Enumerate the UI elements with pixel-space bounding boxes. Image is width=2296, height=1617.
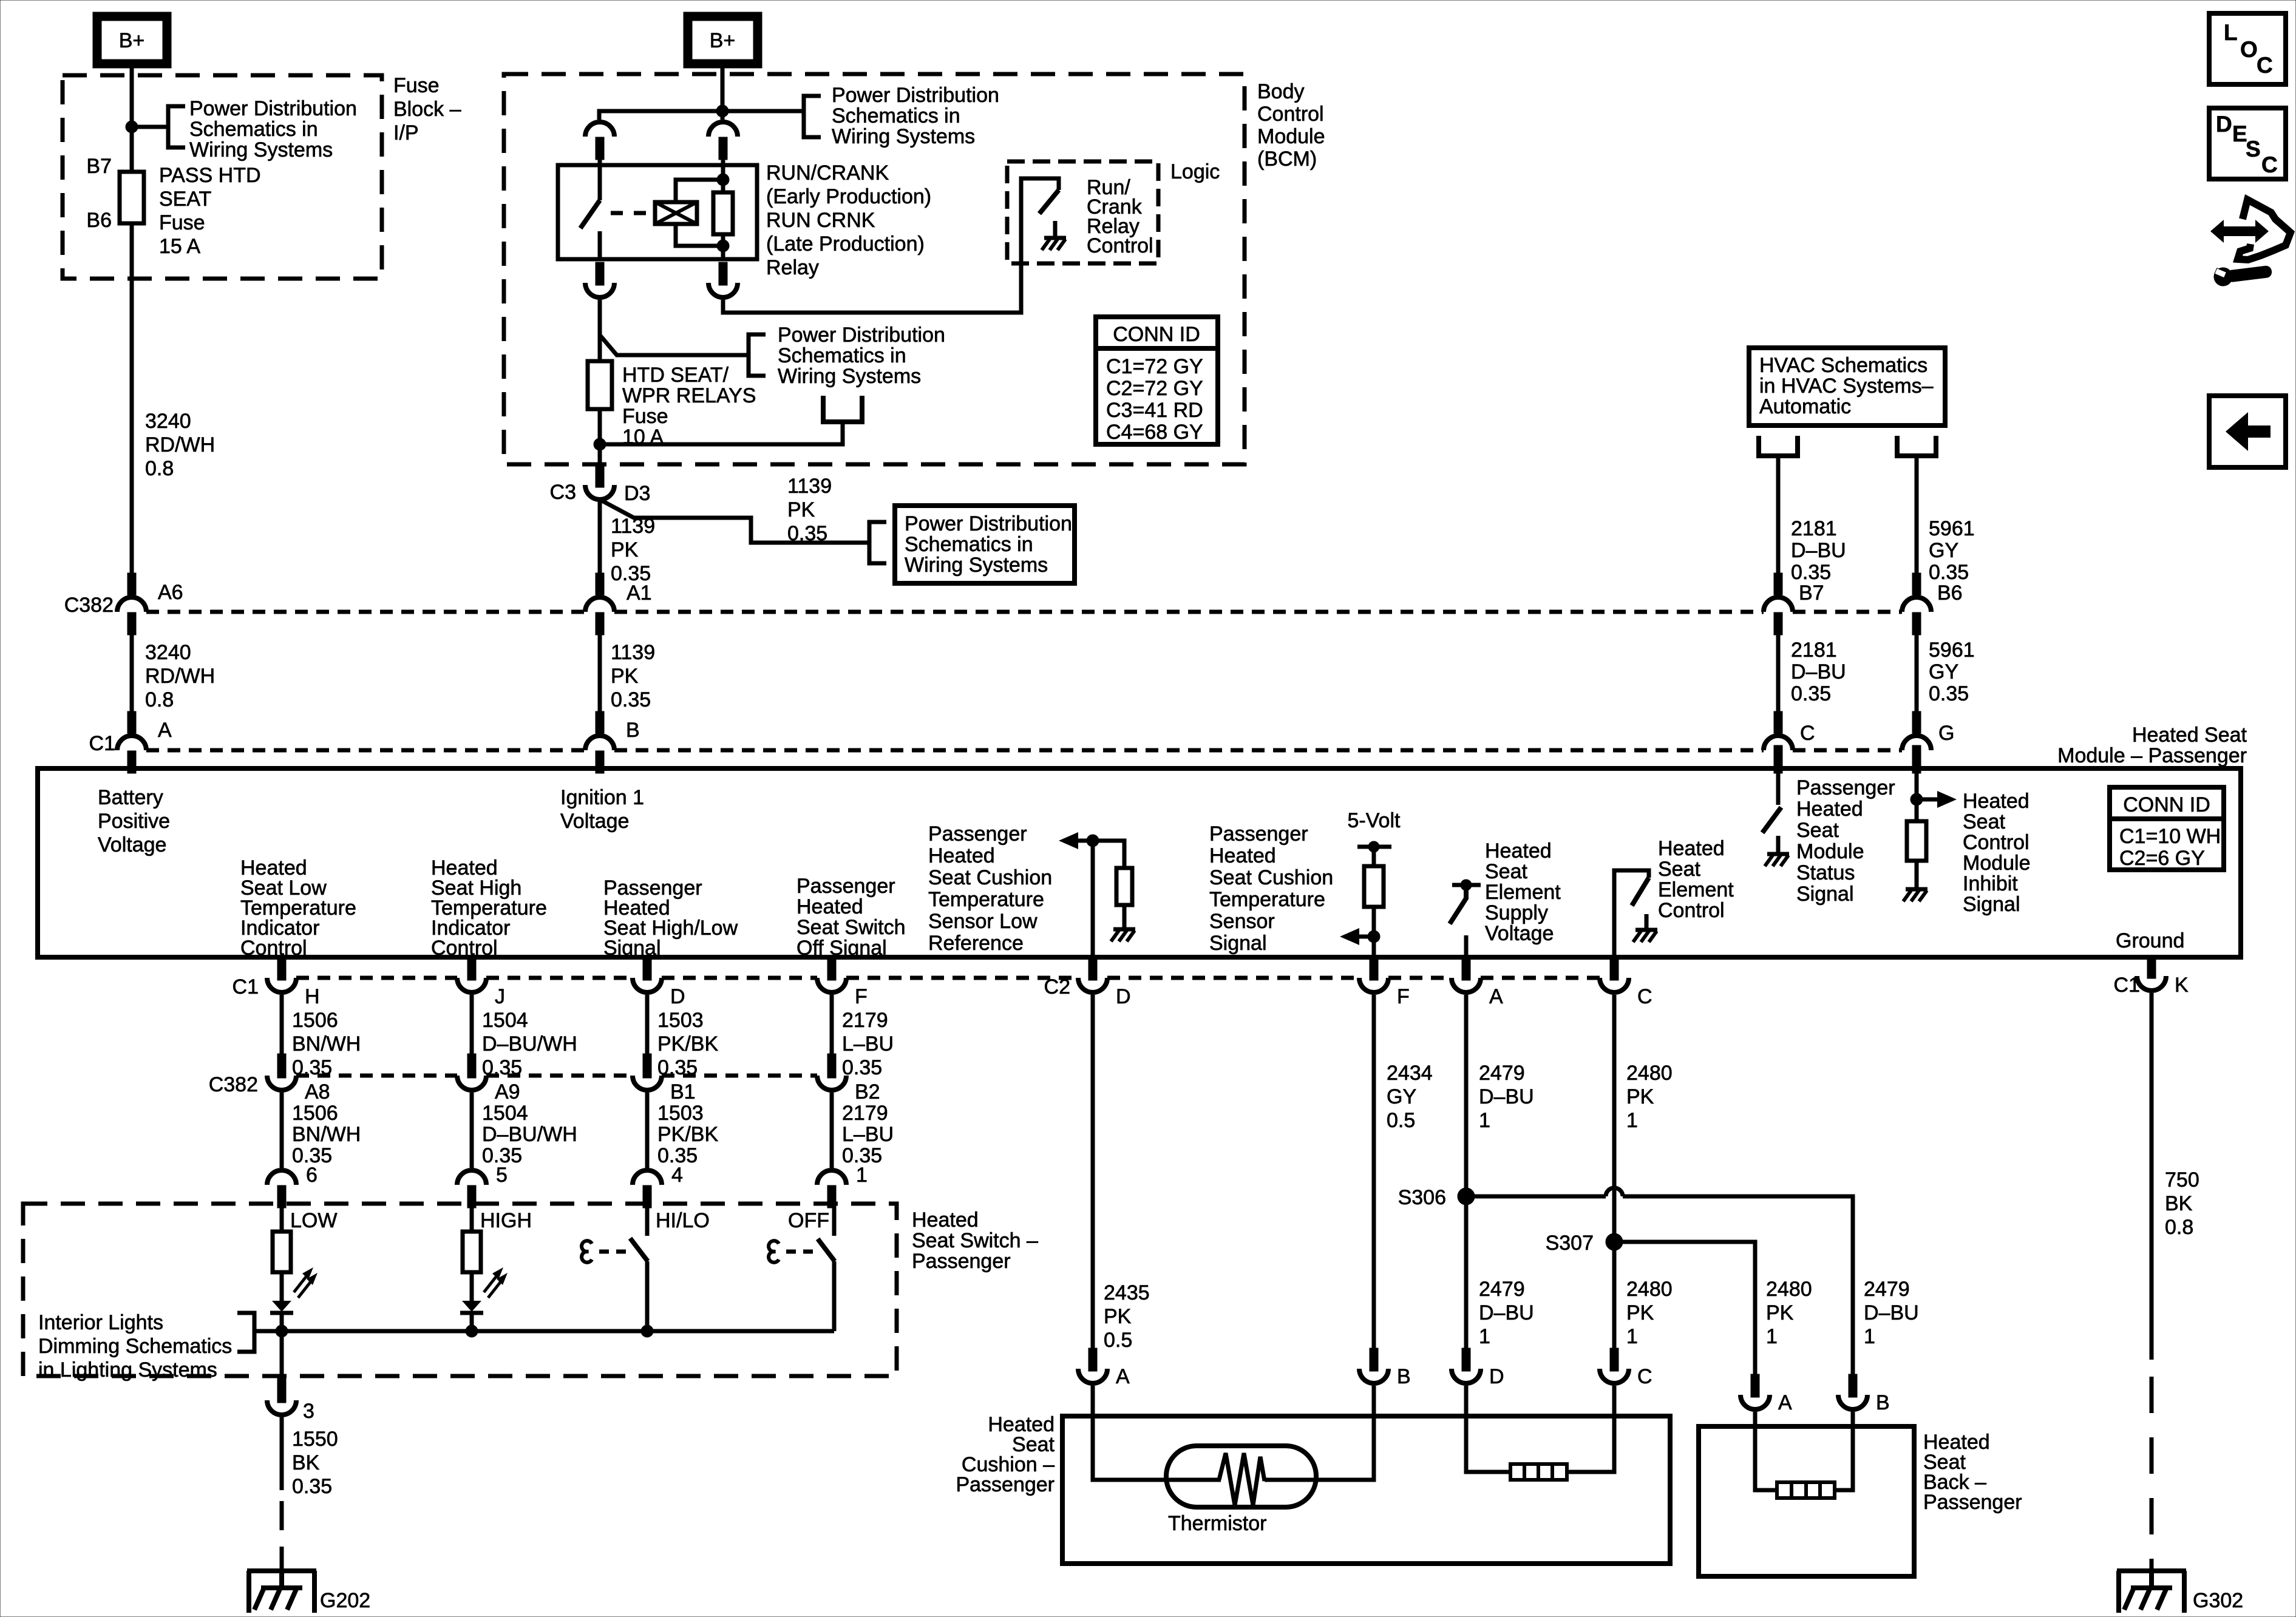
- wire S306 to seat back B: [1466, 1195, 1606, 1199]
- connector C3/D3 (BCM output): [585, 485, 614, 500]
- mechanical link OFF: [769, 1241, 779, 1263]
- wire 750 BK dashed: [2150, 1377, 2154, 1571]
- connector pin C (element control): [1600, 978, 1629, 992]
- wire 750 BK solid: [2150, 993, 2154, 1360]
- bracket pointer (power distribution): [168, 106, 185, 147]
- connector A9 of C382: [457, 1076, 486, 1090]
- junction node fuse-block feed: [126, 121, 138, 133]
- wire relay switch out: [598, 300, 602, 361]
- box Heated Seat Module - Passenger: [38, 768, 2241, 957]
- bracket pointer (interior lights dimming): [237, 1313, 254, 1352]
- connector B1 of C382: [633, 1076, 662, 1090]
- connector pin F (switch off): [817, 978, 846, 992]
- junction node LOW-bus: [276, 1325, 288, 1337]
- wire thermistor to cushion B: [1265, 1386, 1374, 1480]
- svg-text:HeatedSeatElementSupplyVoltage: HeatedSeatElementSupplyVoltage: [1485, 839, 1561, 945]
- goes-to tab HVAC right: [1897, 436, 1936, 456]
- svg-text:Thermistor: Thermistor: [1168, 1512, 1266, 1535]
- svg-text:HeatedSeatElementControl: HeatedSeatElementControl: [1658, 837, 1734, 922]
- wire OFF input: [832, 1207, 837, 1236]
- wire 1504 D–BU/WH (C382 to switch): [470, 1093, 474, 1168]
- bracket pointer (1139 power distribution): [869, 522, 886, 563]
- connector pin J: [457, 978, 486, 992]
- ground (module status): [1776, 836, 1781, 854]
- dashed line connector C382 row (A8-B2): [296, 1074, 457, 1078]
- wire bus to connector 3: [280, 1331, 284, 1378]
- connector switch pin 4: [633, 1170, 662, 1185]
- svg-text:1: 1: [856, 1164, 868, 1187]
- svg-text:CONN ID: CONN ID: [1113, 323, 1200, 346]
- wire 2479 D-BU (module A to S306): [1464, 995, 1469, 1348]
- wire B+ to fuse B7: [130, 64, 134, 172]
- svg-text:B+: B+: [710, 29, 736, 52]
- bracket pointer (BCM power distribution): [804, 96, 821, 137]
- connector pin A (element supply): [1452, 978, 1481, 992]
- wire element to back B: [1835, 1412, 1853, 1490]
- goes-to tab HVAC left: [1759, 436, 1798, 456]
- junction node fuse out: [594, 438, 606, 450]
- svg-text:G302: G302: [2193, 1589, 2243, 1612]
- svg-text:5: 5: [496, 1164, 508, 1187]
- svg-text:BatteryPositiveVoltage: BatteryPositiveVoltage: [98, 786, 170, 856]
- svg-text:D: D: [1489, 1365, 1504, 1388]
- connector G (module inhibit input): [1902, 736, 1931, 750]
- table CONN ID (module): [2110, 787, 2224, 870]
- svg-text:B7: B7: [86, 155, 112, 178]
- svg-text:C: C: [1637, 985, 1652, 1008]
- table CONN ID (BCM): [1096, 317, 1218, 444]
- wire fuse to BCM connector C3: [598, 409, 602, 464]
- svg-text:C: C: [1800, 722, 1815, 745]
- goes-to tab under label: [823, 396, 862, 422]
- relay actuator dashed link: [611, 211, 623, 215]
- node inhibit: [1911, 793, 1923, 805]
- wire B+ into BCM: [721, 64, 725, 120]
- wire 2434 GY (module F to cushion B): [1372, 995, 1376, 1348]
- svg-text:C: C: [2257, 53, 2273, 78]
- svg-text:C: C: [1637, 1365, 1652, 1388]
- wire cushion A to thermistor: [1093, 1386, 1221, 1480]
- wire inhibit resistor to ground: [1915, 861, 1919, 886]
- junction node HI/LO-bus: [641, 1325, 653, 1337]
- wire 5-volt to resistor: [1372, 847, 1376, 866]
- svg-text:B: B: [626, 719, 640, 742]
- thermistor body: [1166, 1446, 1316, 1507]
- svg-text:O: O: [2240, 37, 2258, 62]
- svg-text:C2: C2: [1044, 975, 1070, 998]
- wire tab to fuse output: [600, 422, 843, 444]
- junction node HIGH-bus: [466, 1325, 478, 1337]
- svg-text:6: 6: [306, 1164, 318, 1187]
- wire B+ splice to relay switch pin: [599, 111, 804, 120]
- svg-text:Ground: Ground: [2116, 929, 2184, 952]
- arrow inhibit signal: [1923, 798, 1940, 802]
- thermistor zigzag: [1219, 1453, 1265, 1505]
- wire cushion D to element: [1466, 1386, 1510, 1472]
- connector A (seat back): [1741, 1395, 1770, 1409]
- resistor sensor low reference: [1116, 868, 1132, 905]
- power symbol B+ (BCM feed): [688, 16, 758, 64]
- svg-text:F: F: [1397, 985, 1410, 1008]
- svg-text:C382: C382: [209, 1073, 258, 1096]
- svg-text:HIGH: HIGH: [480, 1209, 532, 1232]
- wire 1139 PK down to A1: [598, 500, 602, 573]
- box Power Distribution Schematics in Wiring Systems: [895, 506, 1075, 583]
- svg-text:Heated Seat: Heated Seat: [2132, 724, 2247, 747]
- wire 1139 PK to module B: [598, 614, 602, 711]
- box Heated Seat Cushion - Passenger: [1062, 1416, 1670, 1564]
- box Heated Seat Back - Passenger: [1699, 1426, 1914, 1576]
- arrow sensor low reference: [1076, 839, 1093, 843]
- svg-text:4: 4: [671, 1164, 683, 1187]
- wire element supply to pin A: [1464, 935, 1469, 957]
- connector pin relay coil-side (top): [708, 122, 738, 137]
- svg-text:G: G: [1938, 722, 1954, 745]
- connector pin K (ground): [2137, 976, 2166, 991]
- connector pin D (sensor low ref): [1078, 978, 1107, 992]
- dashed box Fuse Block - I/P: [63, 75, 382, 279]
- connector B7 of C382: [1764, 597, 1793, 612]
- svg-text:A: A: [1778, 1391, 1792, 1414]
- power tap 5-Volt: [1357, 845, 1391, 849]
- resistor HIGH indicator: [463, 1232, 481, 1272]
- connector B6 of C382: [1902, 597, 1931, 612]
- ground (sensor low reference): [1123, 914, 1127, 929]
- connector D (cushion): [1452, 1369, 1481, 1383]
- connector C (module status input): [1764, 736, 1793, 750]
- wire 1503 PK/BK (module to C382): [645, 995, 650, 1054]
- wire 1503 PK/BK (C382 to switch): [645, 1093, 650, 1168]
- wire back A to element: [1755, 1412, 1777, 1490]
- svg-text:C: C: [2261, 152, 2278, 177]
- wire 2181 D-BU (HVAC to B7): [1776, 456, 1781, 573]
- arrow sensor signal: [1357, 935, 1374, 939]
- wire ground pin K stub: [2147, 957, 2156, 978]
- wire sensor low reference to pin D: [1091, 841, 1095, 957]
- svg-text:LOW: LOW: [290, 1209, 337, 1232]
- svg-text:D: D: [670, 985, 685, 1008]
- wire 5961 GY (HVAC to B6): [1915, 456, 1919, 573]
- wire 1550 BK solid: [280, 1417, 284, 1490]
- wire 3240 RD/WH to module A: [130, 614, 134, 711]
- resistor LOW indicator: [273, 1232, 291, 1272]
- svg-text:E: E: [2232, 121, 2247, 146]
- connector switch pin 6: [267, 1170, 296, 1185]
- connector switch pin 1: [817, 1170, 846, 1185]
- wire to schematic pointer: [132, 125, 168, 129]
- connector B (module ignition input): [585, 736, 614, 750]
- node sensor signal: [1368, 931, 1380, 943]
- svg-text:J: J: [495, 985, 505, 1008]
- junction node BCM B+ splice: [716, 105, 729, 117]
- relay coil suppression resistor: [721, 165, 725, 192]
- connector pin relay switch-side (bottom): [585, 283, 614, 297]
- wire 2179 L–BU (C382 to switch): [830, 1093, 834, 1168]
- splice S306: [1458, 1188, 1475, 1205]
- svg-text:C1: C1: [89, 732, 115, 755]
- svg-text:Logic: Logic: [1170, 160, 1220, 183]
- svg-text:B: B: [1397, 1365, 1411, 1388]
- wire 5961 GY to module G: [1915, 614, 1919, 711]
- svg-text:B6: B6: [1937, 581, 1963, 605]
- svg-text:OFF: OFF: [788, 1209, 829, 1232]
- wire 1550 BK dashed to G202: [280, 1501, 284, 1571]
- wire resistor to LED (LOW): [280, 1272, 284, 1301]
- fuse F1 PASS HTD SEAT 15A: [120, 172, 144, 223]
- svg-text:3: 3: [303, 1400, 314, 1423]
- junction node HTD SEAT fuse branch: [600, 335, 749, 355]
- wire resistor to ground: [1123, 905, 1127, 914]
- wire relay coil to logic: [723, 178, 1059, 313]
- wire 2435 PK (module D to cushion A): [1091, 995, 1095, 1348]
- svg-text:S: S: [2246, 137, 2261, 161]
- bracket pointer (relay output power distribution): [749, 334, 766, 376]
- LED low indicator: [272, 1301, 291, 1312]
- svg-text:A: A: [1116, 1365, 1130, 1388]
- wire 1506 BN/WH (module to C382): [280, 995, 284, 1054]
- icon box LOC: [2209, 13, 2286, 84]
- ground (element control): [1645, 914, 1649, 930]
- connector A1 of C382: [585, 597, 614, 612]
- switch heated seat element supply: [1452, 883, 1481, 887]
- connector pin H: [267, 978, 296, 992]
- wire LED to bus (HIGH): [470, 1313, 474, 1331]
- svg-text:A8: A8: [305, 1080, 330, 1103]
- wire 1504 D–BU/WH (module to C382): [470, 995, 474, 1054]
- wire HI/LO input: [645, 1207, 650, 1236]
- svg-text:L: L: [2224, 20, 2238, 45]
- heating element (seat back): [1777, 1482, 1835, 1498]
- node sensor low reference: [1087, 835, 1099, 847]
- power symbol B+ (battery feed, fuse block): [97, 16, 167, 64]
- wire resistor to sensor signal node: [1372, 907, 1376, 957]
- wire 3240 RD/WH (fuse to C382): [130, 223, 134, 573]
- svg-text:G202: G202: [320, 1589, 370, 1612]
- switch OFF: [818, 1239, 835, 1261]
- mechanical link HI/LO: [582, 1241, 592, 1263]
- svg-text:C3: C3: [550, 481, 576, 504]
- svg-text:H: H: [305, 985, 320, 1008]
- icon box back-arrow: [2209, 396, 2286, 467]
- svg-text:B+: B+: [119, 29, 145, 52]
- svg-text:C1: C1: [233, 975, 259, 998]
- svg-text:D3: D3: [624, 482, 650, 505]
- dashed line connector C382 row (A6-B6): [146, 610, 585, 614]
- icon hand with double arrow and wrench: [2238, 200, 2291, 260]
- box HVAC Schematics in HVAC Systems - Automatic: [1749, 348, 1945, 425]
- fuse F2 HTD SEAT/WPR RELAYS 10A: [588, 361, 612, 409]
- wire 2181 D-BU to module C: [1776, 614, 1781, 711]
- wire LOW leg: [280, 1207, 284, 1232]
- connector pin relay coil-side (bottom): [708, 283, 738, 297]
- wire inhibit input: [1915, 768, 1919, 821]
- svg-text:A: A: [158, 719, 172, 742]
- connector A (cushion): [1078, 1369, 1107, 1383]
- resistor inhibit: [1907, 821, 1926, 861]
- relay box RUN/CRANK: [558, 165, 757, 259]
- wire S307 to seat back A: [1614, 1242, 1755, 1374]
- connector A (module battery input): [117, 736, 146, 750]
- logic switch Run/Crank Relay Control blade: [1039, 190, 1059, 214]
- svg-text:D: D: [1116, 985, 1131, 1008]
- wire resistor to LED (HIGH): [470, 1272, 474, 1301]
- dashed line module output connector row: [296, 976, 457, 980]
- wire 1506 BN/WH (C382 to switch): [280, 1093, 284, 1168]
- switch heated seat element control: [1614, 870, 1649, 957]
- icon box DESC: [2209, 108, 2286, 179]
- svg-text:B1: B1: [670, 1080, 696, 1103]
- connector B (seat back): [1838, 1395, 1867, 1409]
- splice S307: [1606, 1233, 1623, 1250]
- svg-text:A6: A6: [158, 581, 183, 604]
- connector pin D (switch high/low): [633, 978, 662, 992]
- svg-text:K: K: [2175, 974, 2189, 997]
- relay coil wiring: [676, 180, 723, 202]
- svg-text:A: A: [1489, 985, 1503, 1008]
- svg-text:C382: C382: [64, 594, 114, 617]
- dashed line module input connector row: [146, 748, 585, 753]
- relay coil (box with X): [655, 202, 697, 224]
- svg-text:S307: S307: [1546, 1232, 1594, 1255]
- connector switch pin 5: [457, 1170, 486, 1185]
- LED high indicator: [462, 1301, 481, 1312]
- svg-text:D: D: [2216, 112, 2232, 137]
- svg-text:CONN ID: CONN ID: [2123, 793, 2210, 816]
- svg-text:A9: A9: [495, 1080, 520, 1103]
- wire 2480 PK (module C to S307): [1612, 995, 1617, 1348]
- junction node coil bottom: [717, 240, 729, 252]
- svg-text:B7: B7: [1799, 581, 1824, 605]
- svg-text:B: B: [1876, 1391, 1890, 1414]
- svg-text:HI/LO: HI/LO: [656, 1209, 710, 1232]
- connector B2 of C382: [817, 1076, 846, 1090]
- dashed box Body Control Module (BCM): [504, 74, 1245, 464]
- resistor sensor signal pull-up: [1364, 866, 1384, 907]
- svg-text:B2: B2: [855, 1080, 880, 1103]
- switch passenger heated seat module status: [1776, 768, 1781, 805]
- svg-text:S306: S306: [1398, 1186, 1446, 1209]
- connector A6 of C382: [117, 597, 146, 612]
- switch HI/LO: [630, 1238, 648, 1261]
- connector C (cushion): [1600, 1369, 1629, 1383]
- ground G202: [247, 1568, 316, 1573]
- dashed box Logic: [1007, 161, 1158, 263]
- wire HIGH leg: [470, 1207, 474, 1232]
- svg-text:C1=72 GYC2=72 GYC3=41 RDC4=68: C1=72 GYC2=72 GYC3=41 RDC4=68 GY: [1106, 355, 1203, 444]
- connector pin 3 (switch ground): [267, 1400, 296, 1415]
- svg-text:B6: B6: [86, 209, 112, 232]
- connector pin F (sensor signal): [1359, 978, 1388, 992]
- relay switch contact: [598, 165, 602, 200]
- wire LED to bus (LOW): [280, 1313, 284, 1331]
- svg-text:F: F: [855, 985, 868, 1008]
- dashed box Heated Seat Switch - Passenger: [23, 1204, 897, 1376]
- bus switch common: [254, 1329, 834, 1334]
- junction node coil top: [717, 174, 729, 186]
- connector B (cushion): [1359, 1369, 1388, 1383]
- wire 2179 L–BU (module to C382): [830, 995, 834, 1054]
- connector pin relay switch-side (top): [585, 122, 614, 137]
- wire 1139 PK branch to power distribution box: [600, 500, 869, 543]
- wire sensor low ref to pull resistor: [1093, 841, 1124, 868]
- heating element (cushion): [1510, 1464, 1567, 1480]
- svg-text:Module – Passenger: Module – Passenger: [2057, 744, 2247, 767]
- wire element to cushion C: [1567, 1386, 1614, 1472]
- svg-text:5-Volt: 5-Volt: [1348, 809, 1401, 832]
- ground (logic run/crank relay control): [1053, 221, 1058, 238]
- ground G302: [2117, 1568, 2186, 1573]
- ground (inhibit): [1915, 886, 1919, 889]
- connector A8 of C382: [267, 1076, 296, 1090]
- svg-text:A1: A1: [627, 581, 652, 605]
